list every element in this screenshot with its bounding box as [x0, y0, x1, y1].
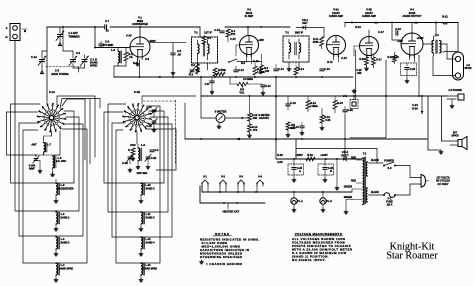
capacitor osc: [150, 150, 159, 152]
svg-text:AUDIO OUTPUT: AUDIO OUTPUT: [402, 15, 422, 18]
svg-text:C-19: C-19: [395, 27, 401, 31]
wire vol tap: [230, 77, 237, 84]
wire S1A loop b: [11, 104, 57, 183]
svg-text:+150V: +150V: [295, 153, 303, 157]
wire CR-1 down: [323, 28, 325, 38]
svg-text:R-21: R-21: [442, 15, 448, 19]
coil L-6: [111, 48, 121, 67]
coil L-10: [139, 183, 155, 203]
wire rail tap: [344, 23, 346, 28]
wire to V-1 grid: [95, 47, 130, 49]
svg-text:C-7: C-7: [105, 20, 110, 23]
tap C-24 down: [412, 96, 423, 114]
wire S1A top loop: [62, 99, 85, 160]
meter res leads: [249, 96, 251, 124]
wire x276 vertical: [275, 77, 277, 160]
svg-text:C-13: C-13: [266, 86, 272, 88]
svg-text:L-9: L-9: [141, 143, 145, 147]
svg-text:SPKR: SPKR: [451, 134, 458, 138]
arrow under C-1A: [41, 68, 44, 74]
spacer: [198, 26, 225, 28]
wire heater bus upper: [202, 186, 263, 193]
svg-text:3.3K: 3.3K: [325, 119, 330, 122]
ground under L-8: [51, 168, 55, 176]
heater V-2: [219, 175, 227, 187]
label voltage title: [295, 232, 343, 236]
wire to speaker top: [442, 96, 459, 141]
svg-text:SPKR: SPKR: [464, 66, 471, 70]
label 3.3 meg: [243, 78, 253, 81]
svg-text:1ST IF: 1ST IF: [204, 31, 212, 35]
svg-text:C-12: C-12: [238, 68, 244, 72]
svg-text:R-24: R-24: [337, 101, 343, 105]
svg-text:VOLTAGE MEASUREMENTS: VOLTAGE MEASUREMENTS: [295, 232, 342, 236]
svg-text:BAND 2: BAND 2: [61, 216, 71, 219]
svg-text:OSC: OSC: [130, 143, 136, 147]
IF transformer T-1: [192, 37, 218, 63]
AC plug P-1: [419, 175, 429, 188]
resistor R-22: [306, 153, 315, 161]
notes chassis ground: [200, 260, 243, 266]
gang link dashed S1B right: [143, 100, 176, 102]
svg-text:B.C. OSC: B.C. OSC: [56, 161, 67, 163]
resistor R-11 AVC: [313, 37, 324, 49]
label fuse F-1: [386, 197, 393, 207]
wire heater bus lower: [200, 186, 265, 204]
svg-text:BLACK: BLACK: [371, 159, 379, 162]
svg-text:S METER: S METER: [215, 110, 227, 114]
svg-text:C-16: C-16: [324, 67, 330, 71]
svg-text:+95V: +95V: [258, 38, 264, 42]
V-1 cathode leads: [136, 56, 140, 77]
phono jack J-1: [343, 89, 358, 109]
label osc sec: [137, 172, 148, 175]
V-4 plate to rail: [412, 23, 418, 33]
coil L-8: [53, 156, 67, 168]
capacitor C-16: [320, 67, 331, 71]
svg-text:BAND 4: BAND 4: [146, 241, 156, 244]
svg-text:L-7: L-7: [47, 143, 51, 147]
svg-text:2ND IF: 2ND IF: [295, 31, 304, 35]
tube V-3A: [327, 36, 346, 58]
heater V-4: [256, 175, 264, 187]
osc trimmer leads: [130, 159, 148, 164]
variable capacitor C-1B: [81, 55, 89, 68]
label T-3: [435, 34, 439, 37]
wire S1A to right top: [57, 96, 95, 157]
svg-text:GREEN: GREEN: [344, 197, 353, 199]
coil L-1: [54, 179, 74, 203]
capacitor C-12: [234, 66, 245, 72]
resistor osc: [128, 148, 135, 156]
V-2 cathode bits: [241, 55, 259, 66]
resistor R-24: [333, 97, 343, 114]
svg-text:C-2E: C-2E: [151, 157, 157, 160]
V-3B plate wire: [368, 23, 370, 37]
wire S1B loop b: [108, 104, 142, 213]
svg-text:ADJUST: ADJUST: [259, 116, 270, 120]
resistor R-1: [124, 48, 133, 67]
heater leads: [208, 186, 257, 192]
V-4 voltages: [397, 37, 424, 43]
wire T-3 to J-2 top: [440, 44, 456, 59]
capacitor C-14: [274, 64, 285, 71]
trimmer C-9: [189, 67, 195, 76]
V-2 voltages: [230, 37, 264, 42]
wire antenna lead down: [14, 41, 16, 113]
wire J-2 bottom return: [433, 56, 455, 76]
T-2 secondary leads: [344, 158, 362, 200]
svg-text:C-2B: C-2B: [146, 126, 152, 128]
svg-text:R-20: R-20: [393, 56, 399, 59]
svg-text:VOL: VOL: [239, 91, 245, 94]
svg-text:3.3 MEG: 3.3 MEG: [243, 78, 253, 81]
heater V-1: [201, 175, 209, 187]
meter M-1: [216, 114, 225, 123]
trimmer C-2A: [146, 106, 157, 118]
trimmer C-3 ground: [36, 161, 42, 173]
phone jack J-3: [447, 94, 464, 108]
spacer2: [289, 27, 291, 36]
V-4 grid feed: [392, 23, 401, 40]
svg-text:R-11: R-11: [327, 60, 333, 64]
wire T-3 sec low: [441, 52, 445, 74]
capacitor C-11 drop: [205, 77, 215, 94]
wire star bottom down: [44, 132, 52, 139]
coil L-4: [54, 263, 73, 282]
T-1 bottom leads: [196, 63, 208, 72]
svg-text:47K: 47K: [231, 32, 236, 36]
svg-text:C-2A: C-2A: [146, 106, 152, 109]
wire x356 V-3B grid down: [355, 50, 357, 100]
wire x90 long drop: [89, 99, 91, 164]
svg-text:BAND 3: BAND 3: [146, 216, 156, 219]
label power S-2: [384, 159, 394, 171]
wire black lower: [369, 191, 384, 195]
svg-text:CONVERTER: CONVERTER: [132, 23, 148, 26]
IF transformer 2nd: [283, 36, 309, 62]
label CR-1 detector: [302, 18, 309, 25]
wire x185 up: [184, 103, 186, 139]
labels near V-3B: [355, 23, 384, 34]
wire V-2 cathode link: [228, 59, 261, 63]
coil L-12: [139, 237, 155, 256]
T-2 center tap ground: [344, 189, 352, 214]
label heater ckt: [223, 210, 240, 214]
wire audio line y96: [201, 95, 447, 97]
speaker INT: [458, 137, 467, 150]
trimmer C-3: [29, 156, 39, 171]
svg-text:AC ONLY: AC ONLY: [437, 182, 449, 186]
wire bottom bus: [185, 138, 427, 141]
T-3 primary top lead: [434, 23, 436, 36]
svg-text:+10V: +10V: [397, 40, 403, 43]
wire S1B tap4: [141, 124, 172, 237]
trimmer C-2D: [122, 154, 133, 165]
svg-text:L-8: L-8: [58, 157, 62, 160]
pilot lamp PL-1: [291, 192, 304, 212]
svg-text:.005: .005: [357, 72, 362, 75]
resistor R-17: [372, 56, 383, 69]
heater ckt tap: [227, 203, 229, 209]
wire S1B top to meter col: [142, 96, 196, 104]
svg-text:C-17: C-17: [378, 30, 384, 34]
wire antenna coil rail: [94, 47, 129, 49]
svg-text:PL-2: PL-2: [326, 199, 332, 203]
wire x345 down to B+ rail: [344, 115, 346, 159]
gang link dashed down: [175, 100, 177, 164]
grounds under L-9: [128, 157, 150, 172]
tube V-1: [130, 37, 150, 60]
capacitor C-23A: [288, 159, 304, 182]
label C-25: [356, 69, 362, 75]
variable capacitor C-2A: [63, 27, 81, 68]
svg-text:C-1A: C-1A: [31, 55, 37, 59]
svg-text:V-3: V-3: [239, 175, 243, 179]
svg-text:OTHERWISE SPECIFIED: OTHERWISE SPECIFIED: [200, 255, 242, 259]
wire x386 upper: [385, 60, 387, 96]
wire S1A tap5: [55, 129, 87, 264]
svg-text:DET: DET: [302, 21, 308, 25]
svg-text:AUDIO AMP: AUDIO AMP: [362, 15, 377, 18]
switch S-2: [369, 159, 397, 167]
wire meter right: [225, 117, 250, 119]
svg-text:RECT: RECT: [341, 153, 349, 157]
wire corner down to T-1: [199, 27, 201, 37]
svg-text:S-1A: S-1A: [49, 90, 55, 94]
label V-4 6AQ5 audio output: [402, 9, 422, 19]
fuse F-1: [383, 193, 396, 197]
svg-text:C-2D: C-2D: [122, 162, 128, 165]
svg-text:C-11: C-11: [253, 59, 259, 63]
svg-text:C-6: C-6: [105, 40, 110, 44]
capacitor C-18: [286, 97, 297, 111]
capacitor C-19: [395, 27, 401, 35]
svg-text:10K: 10K: [253, 116, 258, 120]
svg-text:R-16: R-16: [359, 58, 365, 61]
resistor R-19b: [387, 52, 396, 64]
wire rail corner down: [444, 23, 458, 52]
svg-text:BAND SPRD: BAND SPRD: [59, 267, 73, 270]
resistor 4700: [216, 69, 226, 76]
wire B+ upper: [296, 139, 377, 163]
svg-text:R-22: R-22: [307, 153, 313, 157]
svg-text:G: G: [5, 35, 7, 39]
capacitor C-15b: [293, 122, 304, 135]
coil L-9: [138, 144, 141, 164]
svg-text:L-6: L-6: [111, 48, 115, 52]
svg-text:B: B: [330, 170, 332, 173]
label T-1: [194, 31, 212, 35]
svg-text:CONVERTER: CONVERTER: [58, 187, 73, 190]
wire AVC bus: [114, 76, 353, 79]
wire AVC left drop: [200, 78, 202, 97]
wire switch to plug top: [395, 166, 419, 178]
resistor R-3b: [191, 60, 199, 74]
potentiometer R-5 volume: [237, 82, 248, 94]
svg-text:150: 150: [265, 70, 270, 73]
trimmer C-2E: [145, 154, 157, 161]
coil L-11: [139, 212, 155, 231]
capacitor C-6: [99, 40, 114, 48]
svg-text:R-25: R-25: [277, 153, 283, 157]
coil L-13: [139, 263, 157, 282]
capacitor C-20: [343, 106, 354, 115]
svg-text:C-20: C-20: [347, 108, 353, 112]
resistor R-16: [359, 56, 368, 71]
svg-text:R-17: R-17: [376, 59, 382, 62]
svg-text:N O T E S: N O T E S: [215, 232, 229, 236]
tube V-3B: [360, 37, 379, 59]
variable capacitor C-1A: [31, 51, 47, 68]
wire top bus left: [47, 26, 200, 28]
resistor R-14: [294, 62, 304, 75]
svg-text:.05: .05: [177, 52, 181, 56]
wire S1B tap2: [141, 111, 164, 183]
wire S1B bottom down: [136, 132, 138, 144]
resistor R-6: [260, 54, 270, 74]
svg-text:BAND 3: BAND 3: [61, 241, 71, 244]
wire down from y96 to y138: [350, 96, 386, 138]
svg-text:S-2: S-2: [388, 166, 393, 170]
wire S1A tap1: [55, 131, 61, 155]
svg-text:6 AV: 6 AV: [230, 37, 236, 41]
svg-text:470 MMF: 470 MMF: [103, 43, 114, 47]
svg-text:R-3: R-3: [191, 64, 196, 67]
V-4 cathode bits: [393, 55, 414, 62]
label T-2 power transformer: [363, 153, 367, 156]
svg-text:V-2: V-2: [221, 175, 225, 179]
svg-text:RED: RED: [351, 158, 356, 160]
capacitor C-13 + ground: [248, 84, 271, 95]
label int speaker: [451, 131, 458, 138]
pilot lamp PL-2: [320, 192, 333, 212]
resistor R-7: [213, 62, 223, 76]
capacitor C-20 box: [401, 63, 417, 83]
svg-text:POWER: POWER: [384, 159, 394, 163]
ground under meter: [217, 123, 221, 129]
wire under L-7: [36, 155, 55, 157]
gang link / main tuning label: [46, 67, 81, 76]
transformer T-3: [432, 36, 441, 56]
svg-text:BAND 2: BAND 2: [146, 187, 156, 190]
wire L-6/R-1 to AVC bus: [114, 61, 126, 77]
svg-text:C-18: C-18: [290, 101, 296, 105]
svg-text:NO SIGNAL INPUT.: NO SIGNAL INPUT.: [292, 258, 326, 262]
wire S1B tap5: [147, 129, 176, 170]
svg-text:C-14: C-14: [278, 67, 284, 71]
resistor R-10: [253, 62, 265, 75]
tube V-2: [240, 36, 259, 58]
rotary switch S-1A: [37, 103, 67, 133]
svg-text:S-1B: S-1B: [134, 90, 140, 94]
grid lead join: [322, 44, 327, 46]
svg-text:470: 470: [443, 22, 448, 26]
label S meter adjust: [258, 113, 269, 120]
svg-text:C-15: C-15: [341, 56, 347, 60]
wire S1A tap4: [55, 124, 83, 237]
svg-text:ANT: ANT: [31, 143, 37, 147]
wire detector rail: [225, 26, 290, 28]
voltage text: [292, 237, 353, 262]
wire S1A to right top2: [60, 99, 100, 109]
wire V-1 grid cap: [139, 26, 141, 37]
wire B+ top rail: [345, 22, 458, 24]
label S meter: [215, 110, 227, 114]
svg-text:IF AMP: IF AMP: [245, 15, 254, 18]
coil L-7: [43, 139, 47, 155]
2nd IF bottom leads: [287, 62, 299, 71]
svg-text:BAND SPRD: BAND SPRD: [143, 267, 157, 270]
capacitor C-10: [214, 28, 224, 33]
label R-25: [277, 153, 283, 164]
wire x95 down: [94, 27, 96, 48]
resistor R-13: [248, 124, 258, 137]
svg-text:R-2: R-2: [133, 61, 138, 65]
wire heater bus to T-2: [263, 191, 352, 193]
V-1 pin voltages: [126, 34, 156, 44]
T-2 join: [361, 158, 363, 160]
label phone jack: [448, 88, 462, 92]
wire S1A loop d: [19, 123, 56, 236]
title Knight-Kit Star Roamer: [386, 242, 438, 262]
label S-1B: [134, 90, 140, 94]
wire S1A tap3: [55, 117, 79, 212]
svg-text:2.2K: 2.2K: [277, 160, 283, 164]
trimmer capacitor C-4: [56, 27, 80, 46]
wire S1A loop c: [15, 113, 56, 211]
capacitor C-23B: [318, 159, 334, 182]
V-3B grid lead: [354, 46, 360, 56]
label band spread: [90, 58, 98, 68]
label 2nd IF transformer: [285, 31, 303, 35]
coil L-2: [54, 211, 70, 231]
label R-21: [442, 15, 448, 26]
power transformer T-2: [363, 157, 368, 204]
svg-text:PL-1: PL-1: [297, 199, 303, 203]
svg-text:C-15: C-15: [293, 125, 299, 129]
svg-text:R-14: R-14: [298, 67, 304, 71]
wire V-2 plate up: [247, 27, 249, 36]
wire x419 V-4 down: [418, 55, 420, 96]
wire S1A loop a: [7, 112, 38, 156]
svg-text:V-4: V-4: [258, 175, 262, 179]
label L-7: [31, 143, 51, 147]
antenna terminals A/G: [5, 24, 27, 41]
label NOTES title: [213, 232, 232, 236]
svg-text:HEATER CKT: HEATER CKT: [223, 210, 240, 214]
junction: [264, 202, 266, 204]
wire under C-2: [73, 67, 85, 72]
label V-2 6BA6 IF amp: [245, 9, 254, 19]
resistor R-12: [248, 113, 258, 121]
labels R-2 C-9: [133, 57, 150, 65]
wire fuse to plug bottom: [395, 184, 419, 195]
svg-text:C-2: C-2: [76, 51, 81, 55]
label S-1A: [49, 90, 55, 94]
label L-9 osc: [130, 143, 145, 147]
resistor R-18: [306, 97, 318, 113]
svg-text:OSC SEC: OSC SEC: [137, 172, 148, 175]
svg-text:C-20: C-20: [410, 68, 416, 71]
wire meter loop: [201, 96, 216, 118]
wire S1B loop a: [104, 112, 142, 184]
svg-text:R-23: R-23: [412, 106, 418, 110]
svg-text:Star Roamer: Star Roamer: [386, 251, 438, 262]
svg-text:R-15: R-15: [355, 25, 361, 29]
wire S1B tap3: [141, 117, 168, 212]
trimmer C-2B: [146, 118, 157, 132]
